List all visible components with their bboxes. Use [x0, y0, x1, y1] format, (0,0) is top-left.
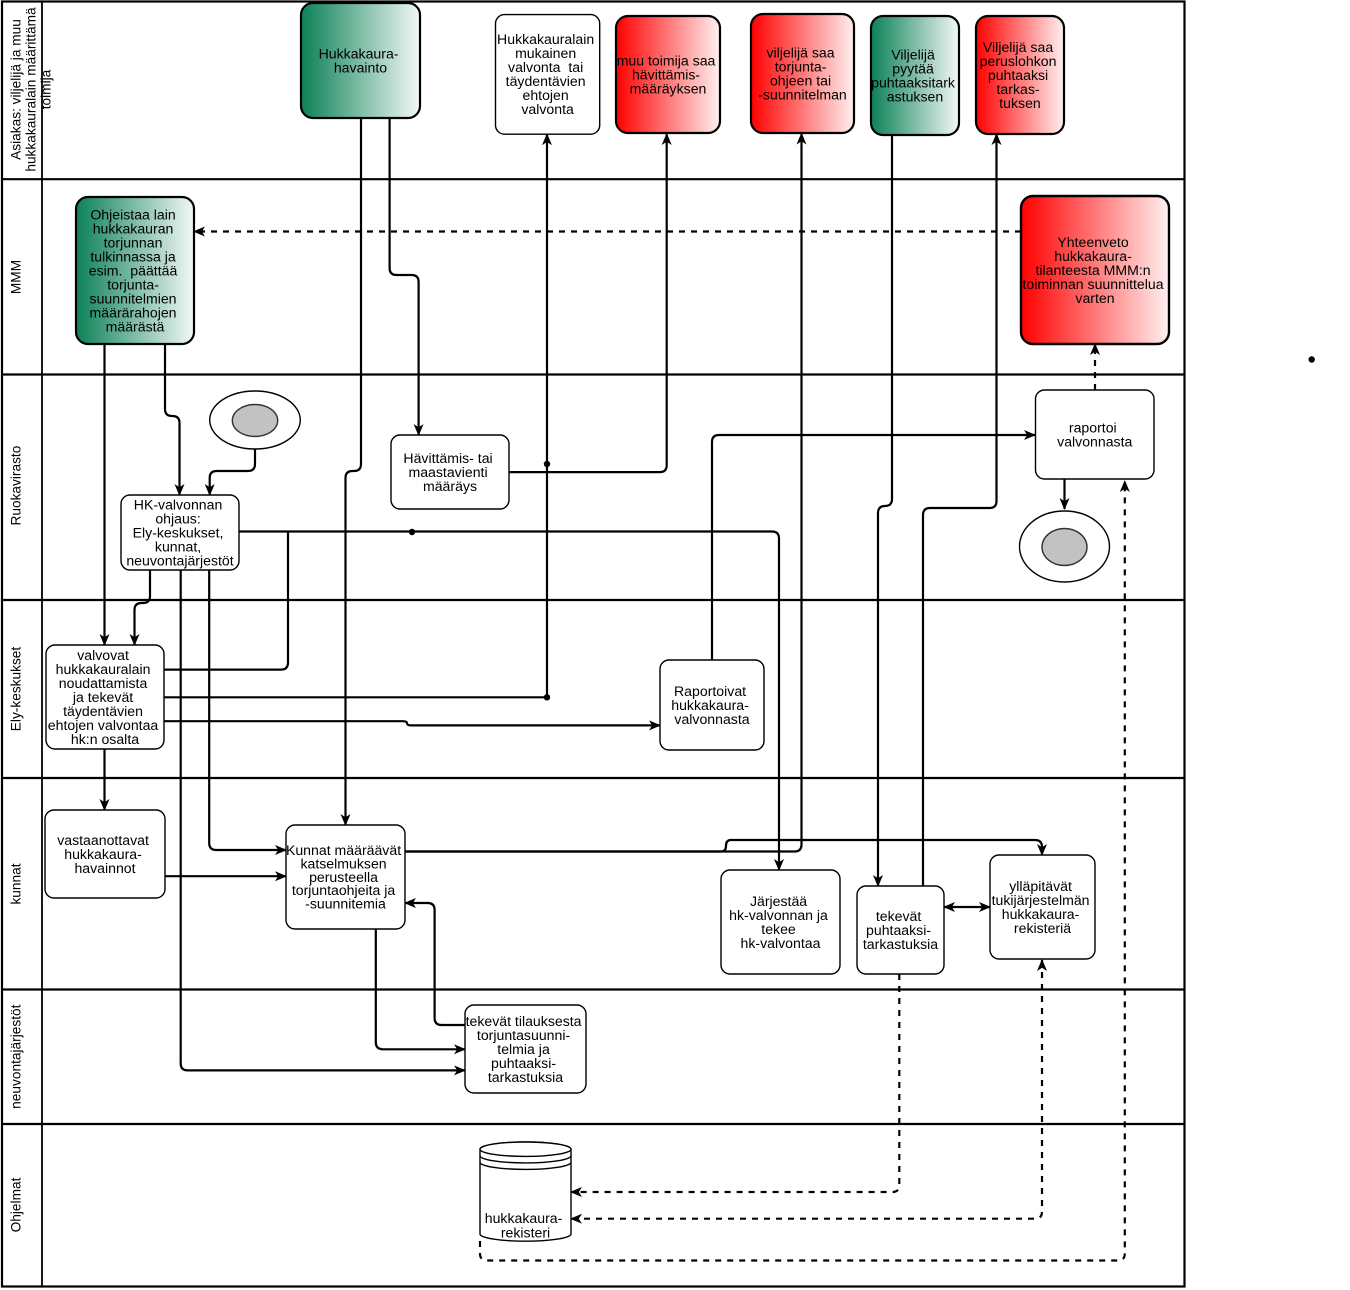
- svg-text:MMM: MMM: [9, 260, 24, 294]
- svg-text:HK-valvonnan ohjaus: Ely-kesku: HK-valvonnan ohjaus: Ely-keskukset, kunn…: [126, 496, 233, 568]
- svg-text:Raportoivat hukkakaura- valvon: Raportoivat hukkakaura- valvonnasta: [671, 683, 752, 727]
- svg-text:neuvontajärjestöt: neuvontajärjestöt: [9, 1004, 24, 1108]
- svg-text:hukkakauralain määrittämä: hukkakauralain määrittämä: [23, 7, 38, 172]
- svg-text:Ruokavirasto: Ruokavirasto: [9, 445, 24, 525]
- svg-text:toimija: toimija: [38, 69, 53, 109]
- svg-text:kunnat: kunnat: [9, 863, 24, 904]
- svg-text:Ohjelmat: Ohjelmat: [9, 1177, 24, 1232]
- svg-text:Ohjeistaa lain hukkakauran tor: Ohjeistaa lain hukkakauran torjunnan tul…: [89, 206, 181, 334]
- svg-text:muu toimija saa hävittämis- mä: muu toimija saa hävittämis- määräyksen: [617, 52, 720, 96]
- svg-text:viljelijä saa torjunta- ohjeen: viljelijä saa torjunta- ohjeen tai -suun…: [758, 44, 847, 102]
- svg-text:Asiakas: viljelijä ja muu: Asiakas: viljelijä ja muu: [8, 19, 23, 160]
- svg-text:Ely-keskukset: Ely-keskukset: [9, 647, 24, 732]
